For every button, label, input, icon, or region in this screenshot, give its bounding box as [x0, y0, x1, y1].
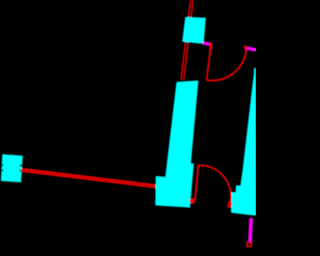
- door1 hinge stub: [209, 42, 212, 49]
- door1 arc end stub: [244, 46, 247, 51]
- wire wall line W2 lower: [22, 171, 156, 187]
- door1 swing arc: [207, 48, 247, 80]
- column right shaft with stepped base: [231, 68, 256, 216]
- door2 arc end marker: [228, 203, 231, 207]
- column central shaft with base: [155, 81, 198, 208]
- wire wall line W1 left: [181, 0, 191, 80]
- door2 leaf: [195, 165, 199, 200]
- door1 jamb magenta left: [203, 43, 210, 44]
- door1 jamb magenta right: [247, 48, 257, 50]
- wire notch left-box right edge upper: [20, 164, 24, 166]
- door3 arc end marker: [247, 242, 252, 246]
- wire wall line W1 right: [184, 0, 193, 80]
- column small left box: [1, 154, 23, 182]
- wire notch left-box left edge upper: [0, 164, 3, 166]
- door3 jamb magenta bottom right: [250, 218, 251, 242]
- column top rectangle: [182, 17, 206, 44]
- door1 leaf: [207, 45, 211, 80]
- door2 hinge marker: [191, 199, 194, 203]
- wire notch left-box left edge lower: [0, 169, 3, 171]
- wire notch left-box right edge lower: [20, 170, 24, 172]
- wire wall line W2 upper: [22, 169, 156, 185]
- door2 swing arc: [198, 165, 230, 203]
